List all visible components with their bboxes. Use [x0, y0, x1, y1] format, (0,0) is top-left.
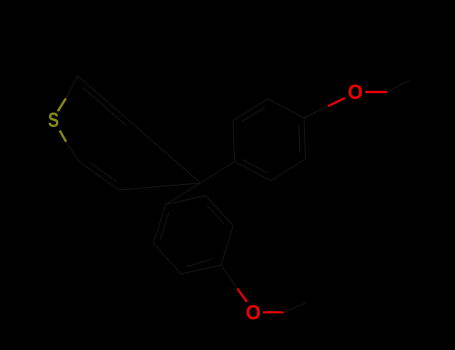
wire: bond C4'-O grey half [304, 105, 330, 118]
wire: bond S-C6 grey half [66, 142, 80, 163]
wire: bond C6-C5 [80, 162, 120, 190]
wire: long bond C2-C3-C4 of thiopyran ring [78, 76, 201, 183]
wire: ring B inner double line C1''=C2'' [160, 212, 169, 239]
wire: bond C4''-O red half [237, 289, 247, 302]
wire: bond C4'-O red half [328, 98, 345, 106]
wire: inner line of double bond C5=C6 [89, 162, 117, 181]
wire: ring B inner double line C5''=C6'' [207, 205, 224, 223]
node ring B benzene outline [153, 196, 233, 274]
wire: bond C5-C4 [119, 183, 200, 190]
svg-text:S: S [48, 109, 59, 132]
wire: bond C4-C1'' to ring B [166, 183, 201, 205]
wire: bond S-C6 olive half [60, 131, 66, 142]
wire: ring A inner double line C3'=C4' [299, 124, 300, 153]
wire: ring B inner double line C3''=C4'' [186, 258, 214, 267]
wire: bond O-CH3 red half (upper methoxy) [365, 91, 387, 93]
wire: bond S-C2 olive half [58, 99, 66, 112]
wire: bond C4-C1' to ring A [201, 162, 235, 183]
wire: inner line of double bond C2=C3 [83, 88, 126, 125]
wire: bond S-C2 grey half [66, 76, 78, 99]
node ring A benzene outline [233, 99, 306, 181]
svg-text:O: O [348, 81, 363, 104]
wire: bond O-CH3 grey half (upper methoxy) [387, 81, 409, 93]
wire: ring A inner double line C5'=C6' [241, 107, 265, 122]
wire: bond O-CH3 red half (lower methoxy) [263, 311, 284, 313]
svg-text:O: O [246, 301, 261, 324]
wire: bond O-CH3 grey half (lower methoxy) [284, 303, 306, 312]
wire: bond C4''-O grey half [221, 265, 237, 289]
wire: ring A inner double line C1'=C2' [243, 160, 269, 173]
